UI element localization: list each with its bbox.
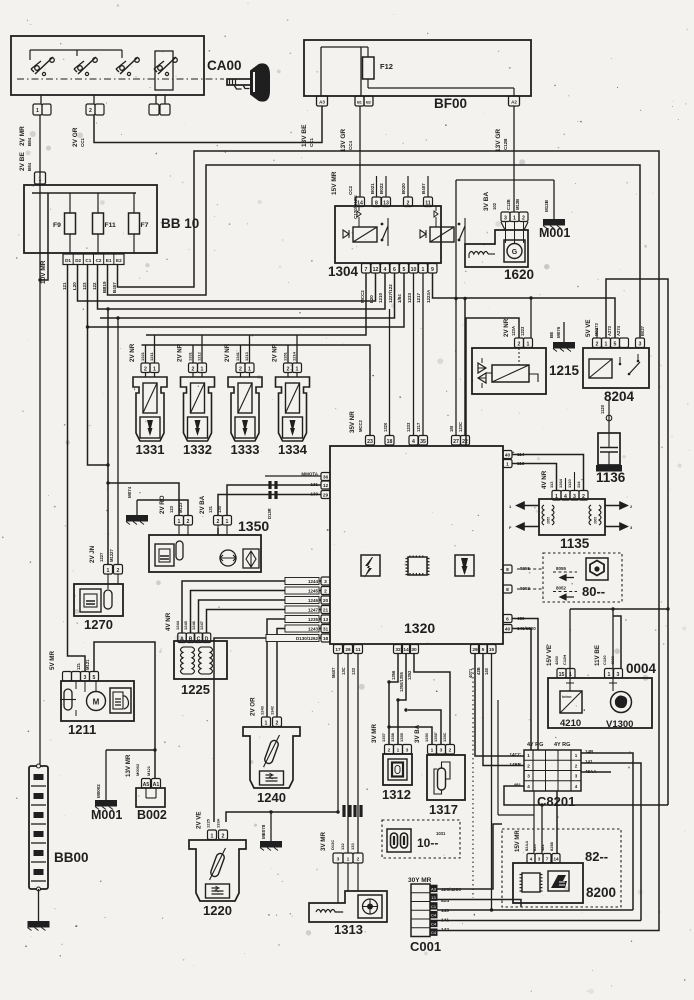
wire 1304 pin 5 feed bbox=[88, 273, 405, 327]
wire 123 from BB10 C1 down left side bbox=[88, 265, 109, 465]
svg-text:1270: 1270 bbox=[84, 617, 113, 632]
wire from 1240 pin2 to 1320 pin 31 bbox=[277, 629, 321, 718]
svg-text:1321: 1321 bbox=[140, 351, 145, 361]
svg-text:5: 5 bbox=[482, 647, 485, 653]
ignition switch CA00 bbox=[11, 36, 204, 95]
svg-text:2V NR: 2V NR bbox=[129, 343, 136, 362]
svg-text:CC2: CC2 bbox=[348, 186, 353, 195]
svg-text:1235: 1235 bbox=[308, 617, 319, 622]
1320 icon injector bbox=[455, 555, 474, 576]
svg-text:1031: 1031 bbox=[436, 831, 446, 836]
svg-text:1: 1 bbox=[211, 833, 214, 839]
svg-text:1: 1 bbox=[569, 672, 572, 678]
svg-text:B021: B021 bbox=[370, 183, 375, 194]
injector control bus bbox=[142, 345, 371, 435]
svg-text:14: 14 bbox=[553, 857, 559, 862]
CA00 switch contact 1 bbox=[35, 66, 40, 71]
CA00 connector pin 3 (unlabelled) bbox=[149, 104, 159, 115]
svg-text:B407: B407 bbox=[421, 183, 426, 194]
CA00 switch contact 2 bbox=[78, 66, 83, 71]
V1300 inner wiring bbox=[569, 691, 571, 713]
svg-text:2V VE: 2V VE bbox=[196, 811, 203, 829]
svg-text:102: 102 bbox=[492, 202, 497, 210]
svg-text:A3: A3 bbox=[319, 100, 325, 105]
svg-text:426/4260: 426/4260 bbox=[441, 887, 461, 893]
svg-text:1214: 1214 bbox=[292, 351, 297, 361]
svg-text:121: 121 bbox=[76, 662, 81, 670]
svg-text:2: 2 bbox=[522, 215, 525, 221]
shield ticks bbox=[342, 805, 345, 817]
svg-text:1: 1 bbox=[265, 720, 268, 726]
ground M078 bbox=[226, 812, 338, 822]
svg-text:CC1: CC1 bbox=[309, 138, 314, 147]
1320 left pins 3 2 20 21 13 31 18 bbox=[321, 577, 330, 585]
double relay 1304 bbox=[335, 206, 441, 263]
svg-text:42B: 42B bbox=[476, 667, 481, 675]
svg-text:1350/1355: 1350/1355 bbox=[399, 672, 404, 692]
svg-text:1: 1 bbox=[527, 341, 530, 347]
svg-text:7: 7 bbox=[365, 267, 368, 273]
1317 knock sensor bbox=[427, 755, 465, 800]
injector 1332 bbox=[189, 363, 198, 373]
svg-text:15: 15 bbox=[559, 672, 565, 678]
svg-text:2: 2 bbox=[596, 341, 599, 347]
svg-text:35V NR: 35V NR bbox=[349, 411, 356, 433]
svg-text:8288: 8288 bbox=[549, 841, 554, 851]
wire 1M to 1320 pin 27 junction bbox=[454, 297, 457, 300]
svg-text:1211: 1211 bbox=[149, 352, 154, 361]
svg-text:2: 2 bbox=[518, 341, 521, 347]
wire BB19 from BB10 E1 to 8204 pin 3 (outer loop) bbox=[108, 165, 641, 338]
svg-text:3V BA: 3V BA bbox=[483, 192, 490, 211]
svg-text:2: 2 bbox=[407, 200, 410, 206]
80-- dashed arrows bbox=[553, 571, 577, 573]
injector 1333 bbox=[236, 363, 245, 373]
svg-text:1: 1 bbox=[107, 568, 110, 574]
1211 fuel pump icon bbox=[110, 688, 131, 713]
svg-text:1244: 1244 bbox=[175, 620, 180, 630]
svg-text:3V MR: 3V MR bbox=[320, 832, 327, 851]
svg-text:6: 6 bbox=[393, 267, 396, 273]
svg-text:F7: F7 bbox=[141, 222, 149, 229]
10-- icon bbox=[387, 829, 411, 852]
svg-text:B2: B2 bbox=[366, 101, 371, 105]
1313 coil bbox=[316, 910, 343, 913]
branch wire 1227 to 1270 pin 1 bbox=[107, 309, 109, 564]
svg-text:1331: 1331 bbox=[136, 442, 165, 457]
svg-text:F11: F11 bbox=[105, 222, 117, 229]
CA00 connector pin 1 bbox=[33, 104, 42, 115]
svg-text:1: 1 bbox=[605, 341, 608, 347]
svg-text:C1: C1 bbox=[431, 904, 437, 909]
svg-text:2V JN: 2V JN bbox=[89, 545, 96, 563]
svg-text:1250: 1250 bbox=[424, 732, 429, 742]
svg-text:4260: 4260 bbox=[554, 655, 559, 665]
BB10 internal bus bbox=[32, 192, 136, 194]
svg-text:1332: 1332 bbox=[183, 442, 212, 457]
svg-text:26: 26 bbox=[345, 647, 351, 653]
BF00 pin A2 bbox=[509, 96, 520, 106]
svg-text:2V MR: 2V MR bbox=[19, 126, 26, 146]
svg-text:hr/mn: hr/mn bbox=[562, 695, 571, 699]
BF00 inner wire to A2 bbox=[368, 87, 514, 89]
svg-text:6: 6 bbox=[506, 617, 509, 623]
svg-text:B84: B84 bbox=[27, 162, 32, 171]
svg-text:1246: 1246 bbox=[308, 598, 319, 603]
stub pins 4,3 bbox=[565, 478, 567, 490]
svg-text:1: 1 bbox=[575, 753, 578, 758]
1135 coil bbox=[542, 505, 544, 525]
svg-text:12: 12 bbox=[323, 483, 329, 489]
svg-text:2: 2 bbox=[388, 748, 391, 754]
svg-text:1357: 1357 bbox=[381, 732, 386, 742]
svg-text:A273: A273 bbox=[607, 325, 612, 336]
svg-text:2V NR: 2V NR bbox=[272, 343, 279, 362]
wire from 1240 pin1 to 1320 pin 13 bbox=[267, 619, 321, 717]
svg-text:A1: A1 bbox=[153, 782, 160, 788]
svg-text:123A: 123A bbox=[511, 326, 516, 336]
1215 pins 2 1 bbox=[515, 338, 524, 348]
1135 coil bbox=[589, 505, 591, 525]
1304 relay coil bbox=[353, 227, 377, 242]
svg-text:30Y MR: 30Y MR bbox=[408, 877, 432, 884]
fuse box BF00 bbox=[304, 40, 531, 96]
shield ticks on 131/130 wires bbox=[268, 481, 271, 489]
svg-text:15: 15 bbox=[489, 647, 495, 653]
1313 pins 3 1 2 bbox=[333, 853, 343, 863]
svg-text:820: 820 bbox=[532, 844, 537, 851]
svg-text:1223: 1223 bbox=[520, 326, 525, 336]
battery BB00 bbox=[29, 766, 48, 889]
svg-text:1: 1 bbox=[431, 748, 434, 754]
wire 1215 pin2 loop bbox=[466, 318, 519, 446]
injector 1331 bbox=[141, 363, 150, 373]
svg-text:113: 113 bbox=[549, 481, 554, 488]
svg-text:4Y RG: 4Y RG bbox=[554, 742, 570, 748]
svg-text:1: 1 bbox=[608, 672, 611, 678]
svg-text:2V BE: 2V BE bbox=[19, 152, 26, 171]
svg-text:L20: L20 bbox=[72, 282, 77, 290]
svg-text:1: 1 bbox=[422, 267, 425, 273]
svg-text:3005: 3005 bbox=[594, 517, 598, 524]
svg-text:F9: F9 bbox=[53, 222, 61, 229]
CA00 switch 4 frame bbox=[155, 51, 173, 90]
svg-text:C120: C120 bbox=[602, 655, 607, 665]
svg-text:1217: 1217 bbox=[416, 292, 421, 303]
connector C8201 bbox=[524, 750, 581, 791]
svg-text:3: 3 bbox=[440, 748, 443, 754]
svg-text:M121: M121 bbox=[85, 659, 90, 670]
svg-text:4: 4 bbox=[527, 784, 530, 789]
svg-text:122: 122 bbox=[92, 282, 97, 290]
svg-text:D2: D2 bbox=[75, 258, 81, 263]
svg-text:10--: 10-- bbox=[417, 836, 438, 850]
80-- hexagon icon bbox=[586, 558, 608, 580]
temperature sensor 1220 bbox=[189, 840, 246, 901]
svg-text:1333: 1333 bbox=[231, 442, 260, 457]
svg-text:481: 481 bbox=[540, 844, 545, 851]
switch unit 8204 bbox=[583, 348, 649, 388]
svg-text:1320: 1320 bbox=[383, 422, 388, 432]
svg-text:13V GR: 13V GR bbox=[495, 129, 502, 152]
1304 relay coil bbox=[430, 227, 454, 242]
1136 top stub with loop bbox=[608, 400, 610, 433]
svg-text:1342: 1342 bbox=[270, 705, 275, 715]
1320 icon IC chip bbox=[408, 557, 427, 575]
svg-text:133: 133 bbox=[350, 843, 355, 850]
fuse F11 bbox=[97, 193, 99, 213]
svg-text:3: 3 bbox=[527, 774, 530, 779]
svg-text:BE: BE bbox=[549, 332, 554, 338]
svg-text:2: 2 bbox=[187, 519, 190, 525]
wire 2V MR down from CA00 pin1 (long feed to BB10 and BB00 battery) bbox=[39, 115, 41, 766]
svg-text:1136: 1136 bbox=[596, 470, 626, 485]
svg-text:M076: M076 bbox=[556, 326, 561, 338]
svg-text:BF00: BF00 bbox=[434, 96, 467, 111]
svg-text:22: 22 bbox=[462, 439, 468, 445]
svg-text:1: 1 bbox=[226, 519, 229, 525]
injector supply bus risers bbox=[154, 335, 156, 363]
svg-text:1/84: 1/84 bbox=[397, 294, 402, 303]
svg-text:1351: 1351 bbox=[283, 351, 288, 361]
throttle unit 1350 bbox=[149, 535, 261, 572]
BF00 inner compartment bbox=[320, 47, 322, 96]
svg-text:9: 9 bbox=[431, 267, 434, 273]
svg-text:1245: 1245 bbox=[183, 620, 188, 630]
sensor 1620 body bbox=[465, 230, 528, 267]
svg-text:1: 1 bbox=[178, 519, 181, 525]
svg-text:4071: 4071 bbox=[468, 668, 473, 678]
svg-text:10: 10 bbox=[411, 267, 417, 273]
fuse F7 bbox=[133, 193, 135, 213]
svg-text:13: 13 bbox=[383, 200, 389, 206]
svg-text:2V BA: 2V BA bbox=[199, 495, 206, 514]
ground M076 near 8204 bbox=[563, 322, 565, 342]
svg-text:3: 3 bbox=[538, 857, 541, 862]
wire from 1220 pin1 to 1320 pin 18 bbox=[214, 638, 321, 822]
svg-text:2: 2 bbox=[144, 366, 147, 372]
svg-text:A2: A2 bbox=[511, 100, 517, 105]
svg-text:M: M bbox=[93, 698, 100, 707]
wire 113 from 1320 pin1r to 1135 pin1 bbox=[512, 464, 557, 491]
svg-text:1247: 1247 bbox=[308, 608, 319, 613]
1304 relay switch bbox=[458, 223, 461, 226]
svg-text:31: 31 bbox=[323, 627, 329, 633]
svg-text:L20: L20 bbox=[369, 295, 374, 303]
1350 valve diamond icon bbox=[243, 549, 259, 568]
svg-text:2: 2 bbox=[217, 519, 220, 525]
svg-text:123: 123 bbox=[82, 282, 87, 290]
svg-text:35: 35 bbox=[420, 439, 426, 445]
svg-text:4: 4 bbox=[575, 784, 578, 789]
svg-text:82AA: 82AA bbox=[524, 841, 529, 851]
svg-text:12: 12 bbox=[373, 267, 379, 273]
svg-text:15V MR: 15V MR bbox=[331, 171, 338, 195]
svg-text:1223A: 1223A bbox=[426, 289, 431, 303]
svg-text:MCC2: MCC2 bbox=[358, 419, 363, 432]
wires 1320 bottom left pins to 1313 bbox=[337, 654, 339, 812]
svg-text:1355: 1355 bbox=[399, 732, 404, 742]
8200 keypad icon bbox=[548, 871, 569, 891]
dotted continuation line bbox=[472, 668, 474, 898]
svg-text:C2: C2 bbox=[96, 258, 102, 263]
svg-text:3: 3 bbox=[337, 857, 340, 863]
svg-text:M074: M074 bbox=[127, 486, 132, 498]
svg-text:1312: 1312 bbox=[382, 787, 411, 802]
svg-text:2: 2 bbox=[357, 857, 360, 863]
svg-text:C4: C4 bbox=[431, 930, 437, 935]
V1300 clock bbox=[611, 692, 632, 713]
svg-text:1352: 1352 bbox=[407, 670, 412, 680]
1304 top pins 14 8 13 2 11 bbox=[356, 197, 365, 207]
splice B002 bbox=[136, 788, 165, 807]
temperature sensor 1240 bbox=[243, 727, 300, 788]
1620 coil bbox=[469, 252, 488, 255]
sensor 1270 bbox=[74, 584, 123, 616]
wire 1217 1304 pin1 to 1320 pin35 bbox=[422, 273, 424, 435]
svg-text:18: 18 bbox=[387, 439, 393, 445]
svg-text:4: 4 bbox=[530, 857, 533, 862]
wire CA00 to pin2 bbox=[93, 95, 95, 104]
CA00 internal bus wire bbox=[30, 49, 122, 51]
svg-text:1: 1 bbox=[39, 177, 42, 183]
wire L20 from BB10 D2 to 1304 pin 12 bbox=[78, 265, 376, 301]
svg-text:2: 2 bbox=[192, 366, 195, 372]
svg-text:80--: 80-- bbox=[582, 584, 605, 599]
svg-text:1: 1 bbox=[506, 462, 509, 468]
injection relay 1215 bbox=[472, 348, 546, 394]
svg-text:E2: E2 bbox=[116, 258, 122, 263]
svg-text:1225: 1225 bbox=[181, 682, 210, 697]
svg-text:13: 13 bbox=[323, 617, 329, 623]
svg-text:8052: 8052 bbox=[556, 586, 567, 591]
wire M121 from 1211 pin5 to B002/M001 bbox=[94, 642, 155, 778]
svg-text:123: 123 bbox=[169, 505, 174, 513]
svg-text:C12B: C12B bbox=[503, 138, 508, 150]
svg-text:23: 23 bbox=[367, 439, 373, 445]
svg-text:1243: 1243 bbox=[308, 627, 319, 632]
8204 pins 2 1 5 - 3 bbox=[593, 338, 602, 348]
bulkhead connector C001 bbox=[411, 884, 430, 937]
1350 connector icon bbox=[155, 544, 174, 566]
1304 relay indicator bbox=[357, 211, 361, 217]
wire CA00 to pin3 bbox=[155, 95, 157, 104]
svg-text:140: 140 bbox=[484, 667, 489, 675]
svg-text:27: 27 bbox=[453, 439, 459, 445]
svg-text:2: 2 bbox=[575, 763, 578, 768]
wires from 1320 bottom right pins down to C8201 bbox=[475, 654, 524, 756]
svg-text:8055: 8055 bbox=[556, 566, 567, 571]
svg-text:140: 140 bbox=[441, 908, 449, 914]
1350 pins 1 2 bbox=[175, 516, 184, 526]
svg-text:36: 36 bbox=[323, 475, 329, 481]
svg-text:29: 29 bbox=[323, 493, 329, 499]
svg-text:2V RO: 2V RO bbox=[159, 495, 166, 514]
svg-text:132: 132 bbox=[340, 843, 345, 850]
svg-text:CC1: CC1 bbox=[80, 138, 85, 147]
1350 pins 2 1 right bbox=[214, 516, 223, 526]
CA00 connector pin 2 bbox=[86, 104, 95, 115]
svg-text:A3: A3 bbox=[431, 886, 437, 891]
svg-text:1233: 1233 bbox=[406, 422, 411, 432]
wire 1223A 1304 pin9 to 1215 and 8204 bbox=[433, 273, 616, 338]
wire 8204 pin1 up right loop to 0004 bbox=[606, 279, 668, 805]
svg-text:1215: 1215 bbox=[549, 363, 580, 378]
svg-text:1304: 1304 bbox=[328, 264, 359, 279]
BF00 pins B1 B2 bbox=[355, 96, 364, 106]
svg-text:1: 1 bbox=[36, 108, 39, 114]
svg-text:2V GR: 2V GR bbox=[72, 127, 79, 147]
1320 top pins 23 18 4 35 27 22 bbox=[366, 436, 375, 446]
1225 pins A B C D bbox=[178, 633, 187, 643]
svg-text:B1: B1 bbox=[357, 101, 362, 105]
svg-text:CA00: CA00 bbox=[207, 58, 242, 73]
1304 relay zener bbox=[420, 230, 426, 238]
svg-text:C12H: C12H bbox=[562, 655, 567, 665]
svg-text:D1: D1 bbox=[65, 258, 71, 263]
svg-text:1350: 1350 bbox=[238, 518, 269, 534]
svg-text:1212: 1212 bbox=[197, 351, 202, 361]
svg-text:E1: E1 bbox=[106, 258, 112, 263]
dashed unit 80-- bbox=[543, 553, 622, 602]
svg-text:1358: 1358 bbox=[390, 732, 395, 742]
svg-text:142: 142 bbox=[441, 927, 449, 933]
inline connector pin on 2V BE wire bbox=[35, 172, 46, 184]
wire 122 from BB10 C2 to 1304 pin 4 with branch to 1270 bbox=[98, 265, 386, 309]
svg-text:14: 14 bbox=[403, 647, 409, 653]
sensor 1312 bbox=[383, 754, 412, 785]
dashes from 1320 pins 8/8 to 80-- bbox=[517, 569, 543, 589]
1317 pins 1 3 2 bbox=[428, 745, 437, 755]
4210 timer bbox=[560, 691, 582, 713]
ECU 1320 box bbox=[330, 446, 503, 644]
svg-text:1120: 1120 bbox=[600, 404, 605, 414]
svg-text:1211: 1211 bbox=[68, 722, 96, 737]
svg-text:133A: 133A bbox=[216, 818, 221, 828]
8200 IC icon bbox=[522, 873, 540, 892]
wires 1244-1247 from 1225 to 1320 left pins bbox=[182, 581, 321, 633]
svg-text:1341: 1341 bbox=[235, 351, 240, 361]
svg-text:3: 3 bbox=[639, 341, 642, 347]
1312 pins 2 1 3 bbox=[385, 745, 394, 755]
svg-text:A5: A5 bbox=[143, 782, 150, 788]
1320 bottom pins 17 26 11 / 32 14 30 / 29 5 15 bbox=[334, 645, 343, 654]
1350 motor icon bbox=[220, 550, 236, 566]
svg-text:2V NR: 2V NR bbox=[224, 343, 231, 362]
wire MMOTA stub bbox=[265, 475, 321, 477]
svg-text:18: 18 bbox=[323, 636, 329, 642]
svg-text:4V NR: 4V NR bbox=[165, 612, 172, 631]
svg-text:114: 114 bbox=[576, 481, 581, 488]
1270 pins 1 2 bbox=[104, 565, 113, 575]
svg-text:4: 4 bbox=[384, 267, 387, 273]
svg-text:B407: B407 bbox=[112, 282, 117, 293]
svg-text:MCC2: MCC2 bbox=[360, 290, 365, 303]
wire 1320 pin18 up bbox=[389, 309, 391, 435]
CA00 key axis dash-dot line bbox=[17, 78, 224, 80]
1136 ground hatch bbox=[596, 465, 622, 472]
svg-text:13V MR: 13V MR bbox=[125, 754, 132, 777]
1135 pins 1 4 3 2 bbox=[552, 491, 561, 501]
svg-text:M407: M407 bbox=[331, 667, 336, 678]
svg-text:1: 1 bbox=[555, 494, 558, 500]
svg-text:D13C: D13C bbox=[330, 840, 335, 850]
BB10 connector strip D1 D2 C1 C2 E1 E2 bbox=[63, 254, 124, 265]
clock unit 0004 bbox=[548, 678, 652, 728]
svg-text:8: 8 bbox=[375, 200, 378, 206]
svg-text:82--: 82-- bbox=[585, 849, 608, 864]
svg-text:BB00: BB00 bbox=[54, 850, 89, 865]
